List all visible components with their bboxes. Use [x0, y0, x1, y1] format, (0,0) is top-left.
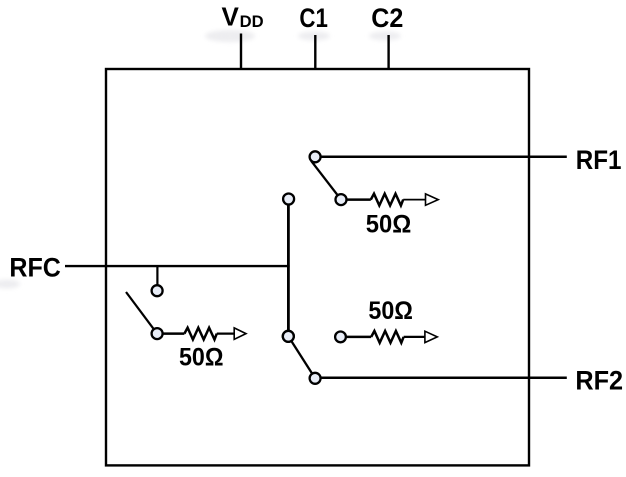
svg-text:V: V — [222, 2, 240, 32]
svg-text:RF1: RF1 — [576, 145, 622, 175]
wire C1 stub — [314, 35, 316, 69]
svg-text:50Ω: 50Ω — [179, 344, 224, 372]
switch arm SW-RF2 (closed, pole to RF2) — [288, 336, 315, 378]
resistor R-RF2 50ohm — [346, 331, 437, 343]
wire RF1 horizontal — [321, 156, 567, 159]
node RF2 termination contact — [335, 332, 346, 343]
wire RFC shunt stub — [156, 266, 158, 285]
pin VDD label — [222, 2, 264, 32]
svg-text:DD: DD — [240, 12, 264, 31]
node RF1 contact — [310, 151, 321, 162]
switch arm SW-RF1 (closed to termination) — [311, 161, 341, 200]
node pole bottom contact — [283, 331, 294, 342]
wire C2 stub — [387, 35, 389, 69]
node RF2 contact — [310, 373, 321, 384]
svg-text:50Ω: 50Ω — [366, 211, 412, 239]
wire RF2 horizontal — [321, 376, 567, 379]
wire VDD stub — [240, 34, 242, 70]
svg-text:50Ω: 50Ω — [368, 297, 413, 325]
node RFC shunt pole contact — [152, 285, 163, 296]
svg-text:C1: C1 — [299, 3, 328, 33]
svg-text:RF2: RF2 — [575, 366, 623, 396]
resistor R-RF1 50ohm — [347, 194, 439, 206]
svg-text:C2: C2 — [371, 3, 403, 33]
svg-text:RFC: RFC — [9, 252, 61, 282]
node pole top contact — [283, 194, 294, 205]
node pole bottom contact (over arm) — [283, 331, 294, 342]
switch arm SW-RFC (open) — [126, 292, 154, 329]
resistor R-RFC 50ohm — [163, 328, 246, 340]
wire center pole bar — [287, 204, 290, 331]
device outline box — [106, 69, 529, 465]
node RF1 termination contact — [336, 194, 347, 205]
wire RFC horizontal — [65, 265, 290, 267]
node RFC termination contact — [152, 328, 163, 339]
